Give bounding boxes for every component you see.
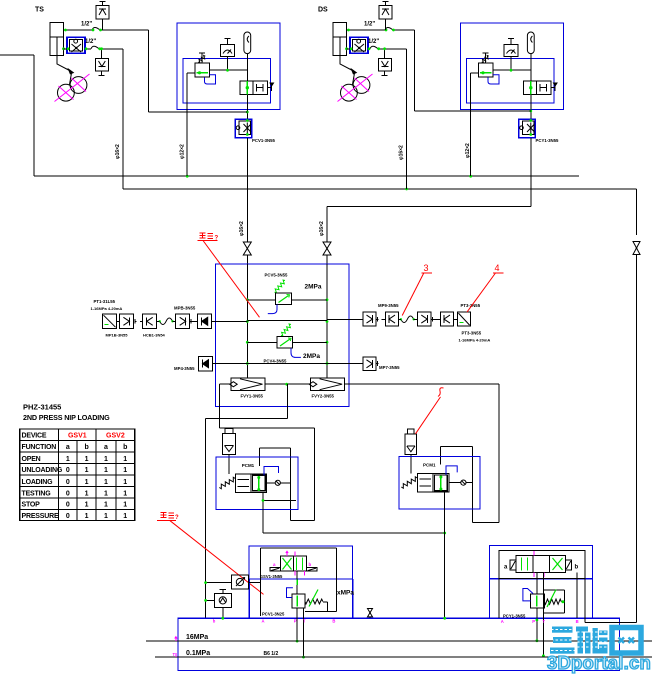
tank bus 0.1MPa [155, 656, 652, 658]
bus A (pilot line y=176) [34, 175, 579, 177]
svg-text:1: 1 [104, 490, 108, 497]
svg-text:1: 1 [104, 502, 108, 509]
svg-text:A: A [262, 619, 265, 624]
wire right T to bus [542, 573, 544, 656]
svg-text:1/2": 1/2" [368, 39, 379, 45]
svg-text:0: 0 [66, 479, 70, 486]
PCM1 blue pilot wire [264, 467, 279, 476]
svg-text:B: B [576, 619, 579, 624]
svg-text:MP9-3N55: MP9-3N55 [378, 303, 399, 308]
svg-text:PHZ-31455: PHZ-31455 [23, 403, 61, 412]
svg-text:3: 3 [424, 263, 429, 273]
svg-text:PCV1-3N25: PCV1-3N25 [262, 611, 285, 616]
svg-text:MP4-3N55: MP4-3N55 [174, 366, 195, 371]
svg-text:φ12×2: φ12×2 [180, 144, 186, 159]
svg-text:1: 1 [123, 467, 127, 474]
wire regulator DS to phi12 drop [471, 72, 479, 74]
svg-text:1: 1 [85, 513, 89, 520]
svg-text:0: 0 [66, 490, 70, 497]
2-position valve DS [523, 81, 551, 95]
wire right edge drop [636, 189, 638, 235]
red note 2 (cjk) lower [161, 513, 175, 519]
hose right chain [401, 316, 414, 323]
flow switch left of GSV1 [231, 575, 248, 589]
svg-text:PT1-31L55: PT1-31L55 [94, 299, 116, 304]
svg-text:b: b [309, 562, 312, 567]
wire regulator TS to phi12 drop [187, 72, 195, 74]
svg-text:1/2": 1/2" [85, 39, 96, 45]
wire tank return from FVY [287, 384, 289, 418]
svg-text:0: 0 [66, 513, 70, 520]
svg-text:PCY1-3N55: PCY1-3N55 [536, 138, 560, 143]
svg-text:4: 4 [495, 263, 500, 273]
PCM1 inner loop [259, 447, 290, 449]
wire DS cylinder rod to rollers [340, 56, 353, 71]
svg-text:TS: TS [35, 7, 44, 14]
svg-text:DS: DS [318, 7, 328, 14]
shutoff valve right (DS line) [323, 242, 331, 255]
svg-text:TESTING: TESTING [22, 490, 52, 497]
wire TS cylinder rod to rollers [57, 56, 70, 71]
svg-text:a: a [104, 444, 108, 451]
flow control PCY1-3N55 DS [519, 119, 535, 138]
internal wire TS [209, 69, 247, 71]
wire right B port [576, 573, 578, 619]
svg-text:HCB1-3N54: HCB1-3N54 [143, 333, 166, 338]
wire TS cylinder to valve [64, 48, 68, 50]
svg-text:2MPa: 2MPa [305, 284, 322, 291]
reducing valve PCV1-3N25 [292, 594, 305, 608]
svg-text:1: 1 [123, 456, 127, 463]
svg-text:b: b [123, 444, 127, 451]
pressure regulator DS [479, 63, 493, 77]
svg-text:1: 1 [85, 490, 89, 497]
wire DS to node [414, 30, 416, 111]
red note 1 (cjk) upper [200, 233, 214, 239]
svg-text:xMPa: xMPa [337, 590, 354, 597]
svg-text:MP7-3N55: MP7-3N55 [379, 365, 400, 370]
svg-text:FVY2-3N55: FVY2-3N55 [312, 393, 335, 398]
svg-text:b: b [213, 619, 216, 624]
svg-text:STOP: STOP [22, 502, 41, 509]
check valve HCB1-3N54 (left) [143, 314, 157, 328]
svg-text:B: B [332, 619, 335, 624]
svg-text:1-16MPa 4-20mA: 1-16MPa 4-20mA [459, 338, 491, 343]
rollers TS [58, 84, 75, 101]
svg-text:GSV2: GSV2 [106, 433, 125, 440]
solenoid valve GSV1-3N55 [280, 556, 306, 571]
svg-text:GSV1-3N55: GSV1-3N55 [260, 574, 283, 579]
tiny shutoff valve B side [368, 609, 373, 617]
wire right edge link [585, 621, 637, 623]
valve DS (blue boxed) [350, 37, 368, 53]
svg-text:B6 1/2: B6 1/2 [264, 651, 279, 657]
right block frame [499, 550, 585, 578]
PCM2 loop [441, 445, 473, 447]
svg-text:1: 1 [85, 456, 89, 463]
svg-text:1: 1 [104, 479, 108, 486]
svg-text:2ND PRESS NIP LOADING: 2ND PRESS NIP LOADING [23, 413, 110, 422]
svg-text:P: P [294, 619, 297, 624]
GSV1 magenta port marks [286, 552, 288, 557]
wire TS valve right port [85, 48, 91, 50]
cylinder DS [333, 23, 347, 56]
pressure regulator TS [195, 63, 209, 77]
svg-text:3Dportal.cn: 3Dportal.cn [547, 652, 651, 673]
PCM1 outer loop [220, 427, 315, 429]
svg-text:PCM1: PCM1 [242, 463, 255, 468]
check valve TS top (vent) [96, 6, 109, 20]
svg-text:φ16×2: φ16×2 [319, 221, 325, 236]
svg-text:φ16×2: φ16×2 [239, 221, 245, 236]
wire PCM1 output to PCM2 [263, 532, 445, 534]
wire TS main vertical (accumulator feed) [246, 54, 248, 81]
svg-text:PCV1-3N55: PCV1-3N55 [252, 138, 276, 143]
svg-text:1: 1 [85, 502, 89, 509]
GSV1 block frame [261, 547, 337, 549]
sensor chain right: MP9 check valves [327, 318, 363, 320]
svg-text:1: 1 [104, 467, 108, 474]
svg-text:0.1MPa: 0.1MPa [186, 650, 210, 657]
accumulator unit DS (blue enclosure) [461, 23, 564, 109]
pilot check symbol PCM2 [408, 429, 415, 434]
check valve MP1B (right) [119, 314, 133, 328]
cylinder TS [50, 23, 64, 56]
wire right P line [536, 573, 538, 595]
wire manifold vertical right [326, 264, 328, 378]
PCM2 pilot check ball [449, 482, 461, 484]
check valve chain last (left filled) [198, 314, 212, 328]
svg-text:φ16×2: φ16×2 [115, 144, 121, 159]
wire TS to node [148, 30, 150, 112]
svg-text:1: 1 [104, 456, 108, 463]
wire FVY1 to PCM1 loop [219, 384, 221, 428]
wire left loop from TS [0, 54, 34, 56]
svg-text:PRESSURE: PRESSURE [22, 513, 59, 520]
valve TS (blue boxed) [67, 37, 85, 53]
svg-text:PCV4-3N55: PCV4-3N55 [264, 359, 288, 364]
svg-text:LOADING: LOADING [22, 479, 54, 486]
svg-text:1: 1 [66, 456, 70, 463]
blue pilot tail TS [205, 75, 216, 84]
svg-text:a: a [66, 444, 70, 451]
svg-text:b: b [84, 444, 88, 451]
pilot check symbol PCM1 [225, 429, 233, 434]
shutoff small under flow switch [214, 594, 231, 608]
svg-text:T: T [173, 652, 176, 657]
svg-text:T: T [543, 619, 546, 624]
wire T drain to tank bus [303, 608, 305, 657]
check valve DS bottom (vent) [378, 58, 391, 71]
wire phi16 DS drop [406, 49, 408, 189]
wire FVY ports [220, 383, 231, 385]
PCM2 blue pilot wire [446, 466, 457, 475]
truth table [20, 429, 135, 521]
svg-text:PCY1-3N55: PCY1-3N55 [503, 613, 526, 618]
PCM1 pilot check ball [267, 482, 276, 484]
watermark 3Dportal [550, 627, 641, 654]
wire DS main vertical (accumulator feed) [530, 54, 532, 81]
wire TS main down [246, 138, 248, 242]
svg-text:DEVICE: DEVICE [22, 433, 47, 440]
svg-text:P: P [532, 619, 535, 624]
svg-text:φ12×2: φ12×2 [465, 143, 471, 158]
wire DS cylinder top port [347, 29, 386, 31]
flow meter FVY1-3N55 [231, 378, 265, 391]
svg-text:1: 1 [85, 479, 89, 486]
blue pilot tail DS [488, 75, 499, 84]
check valve TS bottom (vent) [95, 58, 108, 71]
accumulator DS [527, 32, 534, 54]
internal wire DS [493, 69, 531, 71]
check valve DS top (vent) [379, 6, 392, 20]
svg-text:1: 1 [123, 502, 127, 509]
solenoid valve a/b right [516, 556, 565, 573]
wire FVY2 to PCM2 loop [498, 384, 500, 523]
red note 5 [438, 388, 444, 397]
reducing valve right [531, 594, 545, 608]
valve stand right enclosure (blue) [490, 545, 593, 618]
svg-text:1/2": 1/2" [364, 22, 375, 28]
svg-text:1: 1 [85, 467, 89, 474]
PCM2 cartridge valve [401, 477, 417, 488]
wire DS main down and left jog [530, 138, 532, 207]
wire chain into manifold [212, 320, 248, 322]
svg-text:T: T [303, 619, 306, 624]
wire right P to bus [536, 608, 538, 641]
svg-text:A: A [501, 619, 504, 624]
main stand enclosure (blue) [178, 618, 620, 670]
svg-text:1: 1 [123, 479, 127, 486]
accumulator unit TS (blue enclosure) [177, 23, 280, 109]
svg-text:PCV5-3N55: PCV5-3N55 [265, 273, 289, 278]
wire PCV1 to P bus [296, 608, 298, 641]
svg-text:FVY1-3N55: FVY1-3N55 [241, 393, 264, 398]
svg-text:PCM1: PCM1 [423, 463, 436, 468]
wire PCM2 output down to valve stand [444, 492, 446, 618]
svg-text:0: 0 [66, 467, 70, 474]
pressure gauge DS [504, 44, 518, 56]
svg-text:1: 1 [123, 513, 127, 520]
wire DS valve right port [368, 48, 370, 50]
svg-text:OPEN: OPEN [22, 456, 41, 463]
svg-text:0: 0 [66, 502, 70, 509]
wire phi12 TS drop [186, 73, 188, 176]
GSV1 block enclosure (blue) [249, 546, 353, 579]
svg-text:PT3-3N55: PT3-3N55 [462, 331, 482, 336]
svg-text:2MPa: 2MPa [303, 353, 320, 360]
svg-text:1: 1 [104, 513, 108, 520]
wire phi12 DS drop [470, 73, 472, 176]
manifold enclosure (blue) [216, 264, 350, 407]
pressure bus 16MPa [146, 640, 652, 642]
svg-text:1/2": 1/2" [81, 22, 92, 28]
shutoff valve right edge [633, 242, 640, 255]
bus B (y=189) [122, 49, 124, 189]
hose between chain [160, 318, 173, 325]
svg-text:MP1B-3N55: MP1B-3N55 [106, 333, 129, 338]
flow control PCV1-3N55 TS [235, 119, 251, 138]
svg-text:φ16×2: φ16×2 [399, 145, 405, 160]
svg-text:1: 1 [123, 490, 127, 497]
wire GSV1 P down [296, 571, 298, 594]
rollers DS [341, 84, 358, 101]
PCM1 lower link [262, 492, 264, 533]
svg-text:b: b [575, 565, 579, 571]
wire TS cylinder top port [64, 29, 93, 31]
PCM2 enclosure (blue) [399, 457, 480, 509]
svg-text:16MPa: 16MPa [186, 634, 208, 641]
check valve MP7-3N55 [327, 363, 363, 365]
accumulator TS [244, 32, 251, 54]
svg-text:GSV1: GSV1 [68, 433, 87, 440]
svg-text:FUNCTION: FUNCTION [22, 444, 57, 451]
pressure gauge TS [220, 44, 234, 56]
svg-text:UNLOADING: UNLOADING [22, 467, 63, 474]
flow meter FVY2-3N55 [311, 378, 345, 391]
svg-text:1-16MPa 4-20mA: 1-16MPa 4-20mA [91, 306, 123, 311]
wire DS cylinder to valve [347, 48, 351, 50]
PCM1 enclosure (blue) [216, 457, 298, 510]
PCM1 cartridge valve [219, 477, 235, 488]
2-position valve TS [240, 81, 268, 95]
svg-text:MPB-3N55: MPB-3N55 [174, 305, 196, 310]
shutoff valve left (TS line) [243, 242, 251, 255]
wire manifold vertical left [246, 264, 248, 378]
